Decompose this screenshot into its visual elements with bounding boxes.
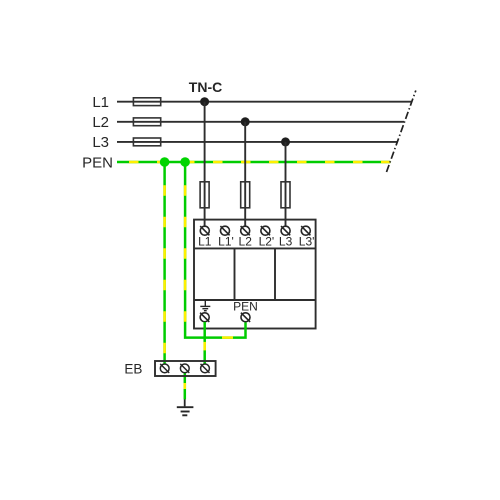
wire L3 <box>117 141 397 143</box>
fuse F6 (vertical, L3 branch) <box>281 182 290 208</box>
EB terminal 2 <box>180 364 189 373</box>
fuse F2 on L2 <box>133 118 160 126</box>
terminal PEN (bottom-right) <box>241 313 250 322</box>
SPD device box outline <box>194 220 316 329</box>
EB terminal 3 <box>201 364 210 373</box>
fuse F3 on L3 <box>133 138 160 146</box>
EB terminal block <box>155 361 216 376</box>
svg-text:L1: L1 <box>198 234 212 248</box>
terminal PE (bottom-left) <box>200 313 209 322</box>
wire PEN (green/yellow) <box>117 161 390 164</box>
ground symbol <box>177 399 194 415</box>
svg-text:L2: L2 <box>92 114 109 131</box>
node PEN 2 <box>180 157 190 167</box>
fuse F5 (vertical, L2 branch) <box>241 182 250 208</box>
wire L1 <box>117 101 411 103</box>
wire EB to earth <box>184 373 187 399</box>
svg-text:PEN: PEN <box>82 155 113 172</box>
wire drop from L1 node <box>204 102 206 227</box>
terminal L3 <box>281 226 290 235</box>
svg-text:L3: L3 <box>92 134 109 151</box>
svg-text:PEN: PEN <box>233 300 258 314</box>
node on L3 <box>281 137 290 146</box>
svg-text:L3: L3 <box>279 234 293 248</box>
wire drop from L2 node <box>244 122 246 226</box>
node on L1 (TN-C tap) <box>200 97 209 106</box>
node on L2 <box>241 117 250 126</box>
svg-text:L2': L2' <box>259 234 275 248</box>
SPD module divider 2 <box>274 248 276 300</box>
fuse F1 on L1 <box>133 98 160 106</box>
break line (diagonal dash-dot) <box>387 91 416 173</box>
terminal L3' <box>301 226 310 235</box>
SPD module divider 1 <box>234 248 236 300</box>
terminal L2' <box>261 226 270 235</box>
EB terminal 1 <box>160 364 169 373</box>
svg-text:L3': L3' <box>299 234 315 248</box>
wire PEN vertical 1 (from node to EB) <box>163 162 166 364</box>
wire PE terminal to EB <box>203 322 206 364</box>
terminal L2 <box>241 226 250 235</box>
svg-text:L1': L1' <box>218 234 234 248</box>
SPD internal divider (above PEN row) <box>194 299 316 301</box>
svg-text:TN-C: TN-C <box>189 79 222 95</box>
SPD internal divider (below terminal row) <box>194 247 316 249</box>
fuse F4 (vertical, L1 branch) <box>200 182 209 208</box>
earth mark above PE terminal <box>200 300 210 311</box>
svg-text:EB: EB <box>124 362 142 377</box>
svg-text:L1: L1 <box>92 94 109 111</box>
terminal L1' <box>220 226 229 235</box>
terminal L1 <box>200 226 209 235</box>
wire PEN vertical 2 (to PEN terminal) <box>185 162 245 338</box>
wire drop from L3 node <box>285 142 287 226</box>
wire L2 <box>117 121 404 123</box>
svg-text:L2: L2 <box>239 234 253 248</box>
node PEN 1 <box>160 157 170 167</box>
